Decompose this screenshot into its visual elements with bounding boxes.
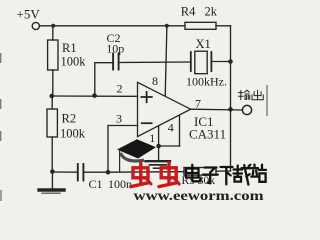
wire C1 to node: [84, 171, 108, 173]
wire noninverting input pin2: [52, 95, 138, 97]
resistor R5: [184, 168, 216, 176]
char 下: [221, 167, 233, 184]
wire R5 to right column: [216, 170, 231, 172]
char 子: [203, 168, 218, 184]
junction node X1 output: [228, 59, 233, 64]
svg-text:R1: R1: [62, 41, 77, 55]
svg-text:C1: C1: [89, 177, 103, 191]
wire pin 4: [179, 115, 181, 146]
svg-text:100k: 100k: [61, 55, 87, 69]
resistor R1: [52, 26, 54, 40]
capacitor C2: [112, 53, 114, 69]
svg-text:+5V: +5V: [17, 7, 41, 22]
wire output pin7: [191, 108, 243, 111]
watermark 虫 second: [159, 163, 179, 187]
wire to ground right: [158, 146, 160, 161]
wire V+ supply pin8: [165, 26, 167, 96]
svg-text:2: 2: [117, 82, 123, 96]
resistor R2: [51, 96, 53, 109]
svg-text:100k: 100k: [60, 127, 86, 141]
wire R4 to right column: [216, 25, 231, 27]
watermark graduation cap: [117, 139, 156, 171]
terminal output: [242, 105, 251, 114]
ground left: [51, 172, 53, 189]
svg-text:R2: R2: [62, 112, 77, 126]
wire pin1 pin4 join: [159, 145, 180, 147]
ground right: [146, 160, 171, 162]
wire inverting input pin3: [108, 126, 138, 173]
svg-text:2k: 2k: [205, 5, 218, 19]
svg-text:CA311: CA311: [189, 126, 226, 141]
wire C2 to X1: [120, 61, 191, 64]
watermark 虫 first: [131, 163, 151, 187]
svg-text:1: 1: [149, 131, 155, 145]
svg-text:100kHz.: 100kHz.: [186, 75, 227, 89]
junction node R1 R2 divider: [50, 94, 55, 99]
svg-text:X1: X1: [196, 37, 211, 51]
watermark cap tassel: [119, 151, 121, 172]
junction node C1 R5 pin3: [106, 170, 111, 175]
svg-text:4: 4: [168, 120, 174, 134]
char 电: [186, 165, 200, 182]
svg-text:8: 8: [152, 74, 158, 88]
svg-text:7: 7: [195, 97, 201, 111]
junction node C2 branch: [92, 93, 97, 98]
junction node V+ branch: [165, 24, 169, 28]
wire ground to C1: [52, 171, 77, 173]
wire top rail: [40, 25, 185, 27]
plus sign: [141, 96, 151, 98]
capacitor C1: [77, 164, 79, 181]
scan edge smudges: [1, 53, 267, 201]
op-amp IC1 triangle: [138, 82, 191, 136]
resistor R4: [185, 22, 216, 29]
svg-text:10p: 10p: [106, 41, 124, 55]
svg-text:www.eeworm.com: www.eeworm.com: [134, 188, 264, 201]
char 站: [251, 165, 266, 182]
wire bottom rail left of R5: [108, 171, 184, 174]
char 载: [234, 165, 251, 185]
junction node ground: [50, 169, 55, 174]
svg-text:100n: 100n: [108, 177, 132, 191]
label 输出 (output): [238, 90, 263, 100]
svg-text:R4: R4: [181, 5, 196, 19]
watermark 电子下载站: [186, 165, 266, 185]
terminal +5V: [32, 22, 39, 29]
minus sign: [142, 122, 152, 124]
wire C2 branch riser: [95, 63, 112, 96]
svg-text:3: 3: [116, 112, 122, 126]
wire right column: [230, 26, 232, 171]
wire pin 1: [158, 126, 160, 146]
junction node pin1 pin4: [156, 144, 161, 149]
junction node R1 top: [51, 24, 55, 28]
junction node output: [228, 107, 233, 112]
crystal X1: [190, 52, 192, 71]
